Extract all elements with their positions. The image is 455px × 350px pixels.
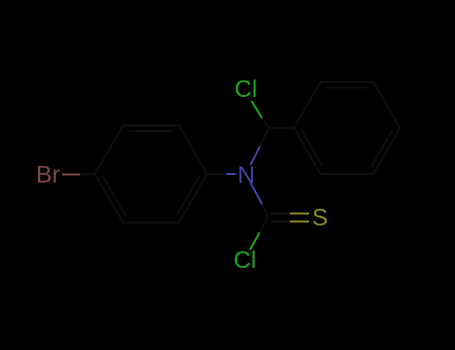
svg-text:Br: Br xyxy=(36,162,60,189)
bond N to CHCl carbon (N-colored half) xyxy=(251,146,261,165)
bond CHCl carbon to ring2 xyxy=(269,127,294,129)
bond Cl(top) to CHCl carbon (Cl-colored half) xyxy=(252,101,263,118)
bond Cl(top) to CHCl carbon (carbon half) xyxy=(262,118,269,128)
bond ring1 to N (N-colored half) xyxy=(227,173,237,175)
svg-text:N: N xyxy=(238,162,255,189)
C=S double bond upper line (carbon half) xyxy=(270,213,290,215)
svg-text:Cl: Cl xyxy=(234,247,257,274)
bond N to thiocarbonyl carbon (carbon half) xyxy=(262,204,268,217)
benzene ring 2 (phenyl) outline xyxy=(294,82,400,174)
bond N to CHCl carbon (carbon half) xyxy=(260,128,269,146)
svg-text:Cl: Cl xyxy=(235,76,258,103)
C=S double bond upper line (S-colored half) xyxy=(290,213,309,215)
ring 2 inner double bond bottom-right xyxy=(371,130,393,167)
C=S double bond lower line (carbon half) xyxy=(270,221,290,223)
bond ring1 to N (carbon half) xyxy=(207,173,227,175)
bond Br to ring1 (Br-colored half) xyxy=(62,174,80,176)
ring 1 inner double bond bottom-left xyxy=(102,176,125,216)
ring 1 inner double bond top xyxy=(129,130,173,132)
bond thiocarbonyl carbon to Cl(bottom) (carbon half) xyxy=(260,217,269,233)
ring 1 inner double bond bottom-right xyxy=(177,176,200,216)
bond Br to ring1 (carbon half) xyxy=(80,173,95,176)
C=S double bond lower line (S-colored half) xyxy=(290,221,309,223)
svg-text:S: S xyxy=(312,205,328,232)
ring 2 inner double bond bottom-left xyxy=(301,130,323,167)
bond N to thiocarbonyl carbon (N-colored half) xyxy=(251,183,262,204)
bond thiocarbonyl carbon to Cl(bottom) (Cl-colored half) xyxy=(250,233,260,251)
ring 2 inner double bond top xyxy=(327,87,368,89)
benzene ring 1 (4-bromophenyl) outline xyxy=(95,126,207,223)
